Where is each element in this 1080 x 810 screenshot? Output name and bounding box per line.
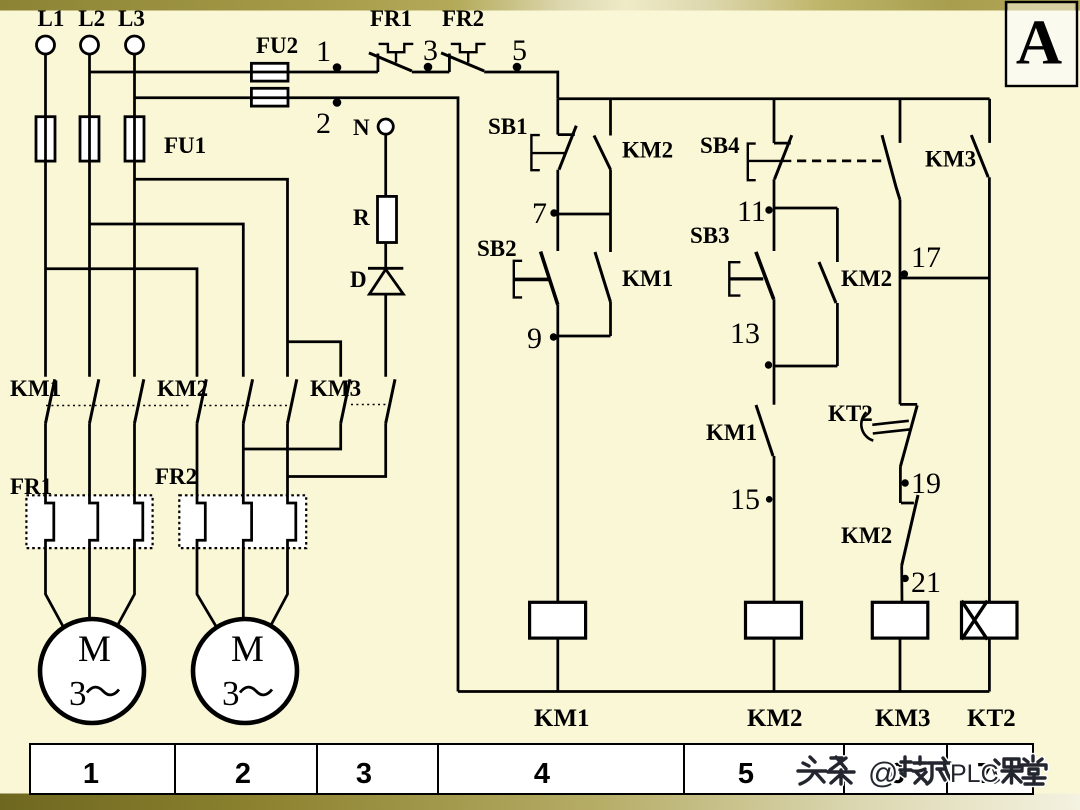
watermark	[798, 756, 1046, 784]
svg-text:KM1: KM1	[534, 705, 590, 732]
contact FR1 NC blade	[369, 53, 412, 71]
svg-text:R: R	[353, 205, 370, 230]
motor M2 3-phase	[193, 619, 297, 723]
svg-text:1: 1	[83, 758, 99, 790]
wire KM2 selfhold to node 13	[836, 303, 839, 366]
wire jumper L1 to KM2 pole1	[46, 269, 198, 377]
pushbutton SB2 NO blade	[541, 252, 558, 305]
wire dash-contact to node 17	[899, 200, 902, 278]
svg-text:FR1: FR1	[370, 6, 412, 31]
zone table	[30, 744, 1033, 794]
contact KM1 aux NO top wire	[609, 214, 612, 252]
node 17 horizontal	[900, 277, 989, 280]
svg-text:FR1: FR1	[10, 474, 52, 499]
contact KM2 NC blade	[902, 495, 918, 566]
wire KM3 pole1 top tap	[288, 342, 341, 377]
contactor KM1 main pole2 blade	[90, 379, 99, 423]
wire SB1 to node 7	[556, 170, 559, 214]
control top rail	[558, 97, 990, 100]
wire KT2 contact to node 19	[899, 467, 902, 503]
wire L1 vertical	[44, 54, 47, 377]
wire KM1 pole3 to heater to motor1	[116, 423, 143, 629]
svg-text:1: 1	[316, 35, 331, 68]
svg-text:3: 3	[423, 34, 438, 67]
node 13 horizontal	[774, 365, 837, 368]
svg-text:KT2: KT2	[967, 705, 1016, 732]
wire R to diode	[384, 243, 387, 269]
wire node 11 to SB3	[773, 208, 776, 251]
wire through FU1 fuses	[46, 116, 135, 162]
wire KM2 coil bottom	[773, 638, 776, 691]
thermal relay FR2 heater box	[179, 495, 306, 548]
wire KM1 pole2 to heater to motor1	[90, 423, 98, 619]
contactor KM2 main pole2 blade	[243, 379, 252, 423]
contact FR2 NC release symbol	[451, 44, 486, 63]
contactor KM1 main pole1 blade	[46, 379, 55, 423]
svg-text:L3: L3	[118, 6, 145, 31]
pushbutton SB4 NC blade	[775, 135, 792, 179]
wire jumper L2 to KM2 pole2	[90, 224, 244, 377]
contact KT2 delay symbol	[872, 421, 910, 434]
svg-text:KM2: KM2	[841, 523, 892, 548]
contactor KM2 main pole1 blade	[197, 379, 206, 423]
wire KM3 pole1 bottom to KM2 pole2 output	[243, 423, 340, 449]
contact KM2 aux NC top wire	[609, 99, 612, 136]
coil KM3	[872, 602, 928, 638]
node 9	[550, 333, 557, 340]
svg-text:15: 15	[730, 483, 760, 516]
wire node 9 to KM1 coil	[556, 336, 559, 602]
terminal L1	[37, 36, 55, 54]
fuse FU1 pole2	[80, 117, 99, 161]
svg-text:5: 5	[738, 758, 754, 790]
svg-text:21: 21	[911, 566, 941, 599]
svg-text:KM3: KM3	[310, 376, 361, 401]
contact SB4 NO linked blade	[882, 135, 900, 200]
pushbutton SB2 actuator	[514, 261, 522, 298]
contact KM2 aux NC blade	[594, 136, 611, 170]
node 13	[765, 361, 772, 368]
node 7	[550, 209, 557, 216]
svg-text:17: 17	[911, 241, 941, 274]
fuse FU1 pole1	[36, 117, 55, 161]
coil KM1	[530, 602, 586, 638]
svg-text:KM2: KM2	[841, 266, 892, 291]
fuse FU2 lower	[251, 88, 288, 106]
wire SB2 to node 9	[556, 305, 559, 336]
coil KT2	[962, 602, 1018, 638]
wire node 7 to SB2	[556, 214, 559, 251]
svg-text:KM3: KM3	[875, 705, 931, 732]
svg-text:19: 19	[911, 467, 941, 500]
svg-text:SB3: SB3	[690, 223, 730, 248]
pushbutton SB1 actuator	[531, 135, 565, 170]
svg-text:2: 2	[235, 758, 251, 790]
svg-text:M: M	[78, 629, 111, 670]
wire SB4 top	[773, 99, 776, 143]
contact KM2 selfhold top wire	[836, 208, 839, 262]
contact KM2 NC step	[901, 502, 914, 505]
wire through FU2 fuses	[251, 72, 290, 98]
wire dash-contact top	[899, 99, 902, 143]
wire node 21 to KM3 coil	[900, 566, 903, 603]
fuse FU1 pole3	[125, 117, 144, 161]
svg-text:5: 5	[512, 34, 527, 67]
pushbutton SB4 actuator	[748, 144, 792, 181]
wire KM1 coil bottom	[556, 638, 559, 691]
node 11 horizontal	[774, 207, 837, 210]
svg-text:KM1: KM1	[622, 266, 673, 291]
decorative bottom band	[0, 794, 1080, 810]
wire L2 vertical	[88, 54, 91, 377]
svg-text:2: 2	[316, 107, 331, 140]
svg-text:3: 3	[356, 758, 372, 790]
thermal relay FR1 heater box	[26, 495, 152, 548]
wire KT2 coil bottom	[988, 638, 991, 691]
wire KM2 pole3 to heater to motor2	[269, 423, 296, 629]
svg-text:D: D	[350, 267, 367, 292]
node 17	[901, 270, 908, 277]
contact FR2 NC fixed tick	[448, 54, 451, 73]
node 2	[333, 98, 342, 107]
slide letter A box border	[1006, 2, 1077, 86]
contact FR1 NC fixed tick	[377, 54, 380, 73]
contact KM1 aux NO blade	[595, 252, 611, 302]
pushbutton SB1 NC fixed foot	[558, 133, 575, 136]
wire N to resistor	[384, 134, 387, 196]
node 19	[901, 479, 908, 486]
svg-text:SB4: SB4	[700, 133, 740, 158]
svg-text:FR2: FR2	[155, 464, 197, 489]
svg-text:PLC: PLC	[950, 760, 999, 788]
svg-text:N: N	[353, 115, 370, 140]
svg-text:FU1: FU1	[164, 133, 206, 158]
pushbutton SB4 NC fixed foot	[774, 142, 791, 145]
wire KM1 pole1 to heater to motor1	[46, 423, 65, 629]
wire SB1 top	[556, 99, 559, 135]
coil KT2 cross mark	[962, 601, 988, 640]
wire node 3 segment	[412, 71, 450, 74]
svg-text:KM1: KM1	[10, 376, 61, 401]
svg-text:3: 3	[222, 674, 240, 713]
terminal L3	[126, 36, 144, 54]
wire FU2 upper to FR1 (nodes 1)	[288, 71, 378, 74]
zone numbers	[83, 758, 993, 790]
terminal L2	[81, 36, 99, 54]
svg-text:L2: L2	[78, 6, 105, 31]
contactor KM1 main pole3 blade	[135, 379, 144, 423]
wire KM3 pole2 bottom to KM2 pole3 output	[288, 423, 386, 476]
svg-text:L1: L1	[38, 6, 65, 31]
svg-text:M: M	[231, 629, 264, 670]
coil KM2	[746, 602, 802, 638]
contactor KM3 pole2 blade	[386, 379, 395, 423]
wire node 5 to control rail corner	[484, 72, 558, 99]
wire KM1 NC to KM2 coil through node 15	[773, 456, 776, 602]
node 5	[513, 63, 522, 72]
svg-text:KM2: KM2	[157, 376, 208, 401]
svg-text:9: 9	[527, 322, 542, 355]
node 9 horizontal	[558, 335, 611, 338]
contactor KM2 main pole3 blade	[288, 379, 297, 423]
node 21	[901, 575, 908, 582]
wire node 2 line to left control rail	[288, 98, 458, 692]
svg-text:KM3: KM3	[925, 147, 976, 172]
wire KM2 pole2 to heater to motor2	[243, 423, 251, 619]
svg-text:KT2: KT2	[828, 401, 873, 426]
wire L3 vertical	[133, 54, 136, 377]
wire KM3 coil bottom	[899, 638, 902, 691]
svg-text:3: 3	[69, 674, 87, 713]
contact KT2 timed NC step	[900, 403, 917, 406]
contact KM2 selfhold blade	[819, 262, 836, 303]
svg-text:KM2: KM2	[622, 138, 673, 163]
contact KM1 NC interlock blade	[756, 405, 773, 456]
wire KM2 aux to node 7	[609, 170, 612, 215]
node 15	[766, 496, 773, 503]
contact KM3 aux top wire	[988, 99, 991, 143]
wire SB4 to node 11	[773, 179, 776, 208]
fuse FU2 upper	[251, 63, 288, 81]
svg-text:KM1: KM1	[706, 420, 757, 445]
mechanical link KM3 dotted	[351, 404, 392, 406]
node 3	[424, 63, 433, 72]
svg-text:4: 4	[534, 758, 550, 790]
svg-text:KM2: KM2	[747, 705, 803, 732]
resistor R	[378, 196, 397, 242]
svg-text:7: 7	[532, 197, 547, 230]
wire KM3 aux to KT2 coil	[988, 177, 991, 602]
pushbutton SB1 NC blade	[559, 126, 576, 170]
slide letter A box fill	[1006, 2, 1077, 86]
svg-text:FR2: FR2	[442, 6, 484, 31]
mechanical link SB4 dashed	[797, 159, 886, 162]
motor M1 3-phase	[40, 619, 144, 723]
contact FR2 NC blade	[441, 53, 484, 71]
svg-text:FU2: FU2	[256, 33, 298, 58]
contact KT2 delay arc	[861, 412, 873, 440]
wire L3 to FU2 lower	[135, 96, 252, 99]
svg-text:@: @	[868, 757, 898, 790]
node 1	[333, 63, 342, 72]
control bottom rail	[458, 690, 989, 693]
wire node 13 to KM1 NC	[773, 366, 776, 405]
node 7 horizontal	[558, 213, 611, 216]
svg-text:13: 13	[730, 317, 760, 350]
diode D	[368, 268, 403, 294]
contact KM3 aux NO blade	[971, 135, 988, 177]
terminal N	[378, 119, 393, 134]
svg-text:11: 11	[737, 195, 766, 228]
band highlight inside A box	[1008, 3, 1075, 10]
wire jumper L3 to KM2 pole3	[135, 179, 288, 377]
svg-text:SB2: SB2	[477, 236, 517, 261]
wire L2 to FU2 upper	[90, 71, 252, 74]
svg-text:SB1: SB1	[488, 114, 528, 139]
contactor KM3 pole1 blade	[341, 379, 350, 423]
wire KM1 aux to node 9	[609, 302, 612, 336]
node 11	[765, 206, 772, 213]
wire SB3 to node 13	[773, 299, 776, 366]
wire diode to KM3 pole2	[384, 294, 387, 377]
decorative top band	[0, 0, 1080, 11]
wire node 17 to KT2 contact	[899, 278, 902, 404]
wire KM2 pole1 to heater to motor2	[197, 423, 218, 629]
contact KT2 timed NC blade	[900, 405, 917, 466]
pushbutton SB3 actuator	[729, 262, 740, 295]
mechanical link KM1-KM2 dotted	[46, 405, 290, 407]
contact FR1 NC release symbol	[379, 44, 414, 63]
pushbutton SB3 NO blade	[756, 252, 774, 299]
svg-text:A: A	[1016, 7, 1062, 78]
